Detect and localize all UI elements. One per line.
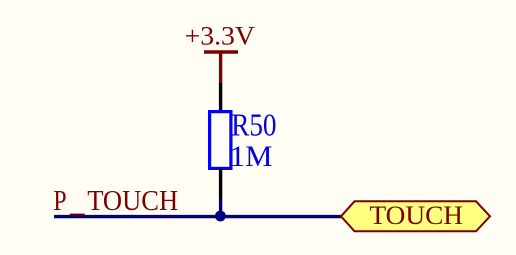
junction [215, 211, 226, 222]
power +3.3V bar symbol [204, 52, 238, 83]
svg-text:+3.3V: +3.3V [185, 22, 255, 51]
svg-text:R50: R50 [231, 108, 276, 143]
power +3.3V label [185, 22, 255, 51]
svg-text:P: P [53, 186, 66, 217]
port TOUCH [341, 200, 490, 231]
wire P_TOUCH horizontal [54, 215, 342, 218]
value 1M [230, 140, 273, 173]
wire from R50 pin 2 to junction [219, 199, 222, 217]
svg-text:TOUCH: TOUCH [87, 186, 178, 217]
svg-text:1M: 1M [230, 140, 273, 173]
resistor R50 pin 1 [219, 83, 222, 111]
resistor R50 pin 2 [219, 169, 222, 200]
resistor R50 body [210, 112, 231, 169]
svg-text:TOUCH: TOUCH [370, 200, 464, 230]
net label P_TOUCH [53, 186, 178, 217]
designator R50 [231, 108, 276, 143]
